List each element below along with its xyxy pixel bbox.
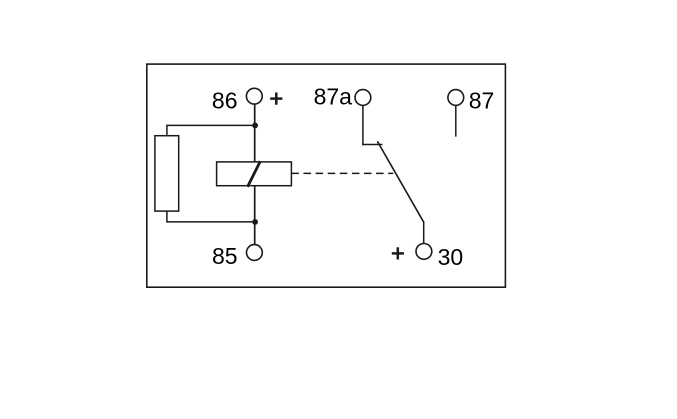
terminal circle 87a (355, 90, 371, 106)
wire: 87 stub (455, 105, 457, 136)
resistor R1 (155, 136, 179, 211)
wire: 87a down to pivot (362, 105, 364, 145)
wire: arm lower vertical (423, 221, 425, 243)
wire: pivot horizontal (362, 144, 382, 146)
wire: 86 vertical main (254, 104, 256, 244)
terminal circle 30 (416, 244, 432, 260)
relay coil K1 (217, 162, 292, 186)
wire: bottom horizontal from resistor (167, 221, 255, 223)
svg-text:30: 30 (438, 244, 464, 270)
plus sign at 86 (270, 93, 282, 105)
wire: top horizontal to resistor (167, 124, 255, 126)
wire: resistor top stub (166, 125, 168, 136)
coil diagonal stroke (248, 161, 261, 187)
terminal circle 85 (247, 245, 263, 261)
svg-text:87: 87 (469, 87, 495, 113)
dashed actuation link (291, 172, 393, 174)
svg-text:87a: 87a (314, 84, 353, 110)
junction dot bottom (252, 219, 258, 225)
plus sign at 30 (392, 247, 404, 259)
svg-text:85: 85 (212, 243, 238, 269)
wire: resistor bottom stub (166, 211, 168, 223)
relay outline box (147, 64, 506, 287)
junction dot top (252, 123, 258, 129)
svg-text:86: 86 (212, 87, 238, 113)
terminal circle 86 (246, 88, 262, 104)
terminal circle 87 (448, 90, 464, 106)
switch arm to 30 (377, 141, 423, 222)
